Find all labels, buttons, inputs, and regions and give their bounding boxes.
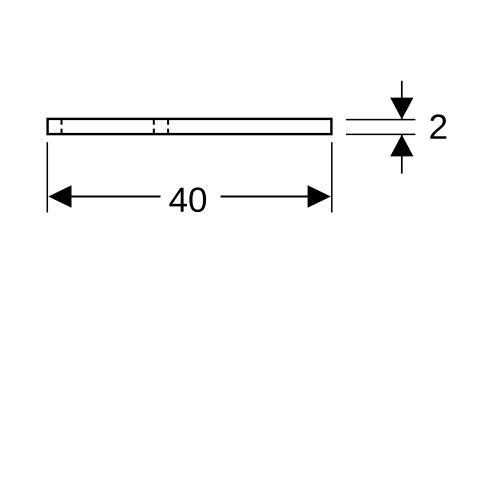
label 40 xyxy=(169,187,206,212)
extension line thickness top xyxy=(346,119,415,121)
extension line left xyxy=(46,142,48,212)
bar profile outline xyxy=(48,119,332,134)
leader line bottom xyxy=(401,135,403,174)
dashed joint tick middle-right xyxy=(167,120,169,133)
leader line top xyxy=(401,81,403,119)
dashed joint tick middle-left xyxy=(153,120,155,133)
extension line thickness bottom xyxy=(346,133,415,135)
label 2 xyxy=(430,114,446,138)
arrowhead left xyxy=(48,185,71,207)
dimension line 40 right segment xyxy=(221,196,309,198)
arrowhead right xyxy=(308,185,331,207)
extension line right xyxy=(331,142,333,212)
dimension line 40 left segment xyxy=(71,196,161,198)
dashed joint tick left xyxy=(61,120,63,133)
arrowhead down xyxy=(390,98,413,120)
arrowhead up xyxy=(390,135,413,157)
